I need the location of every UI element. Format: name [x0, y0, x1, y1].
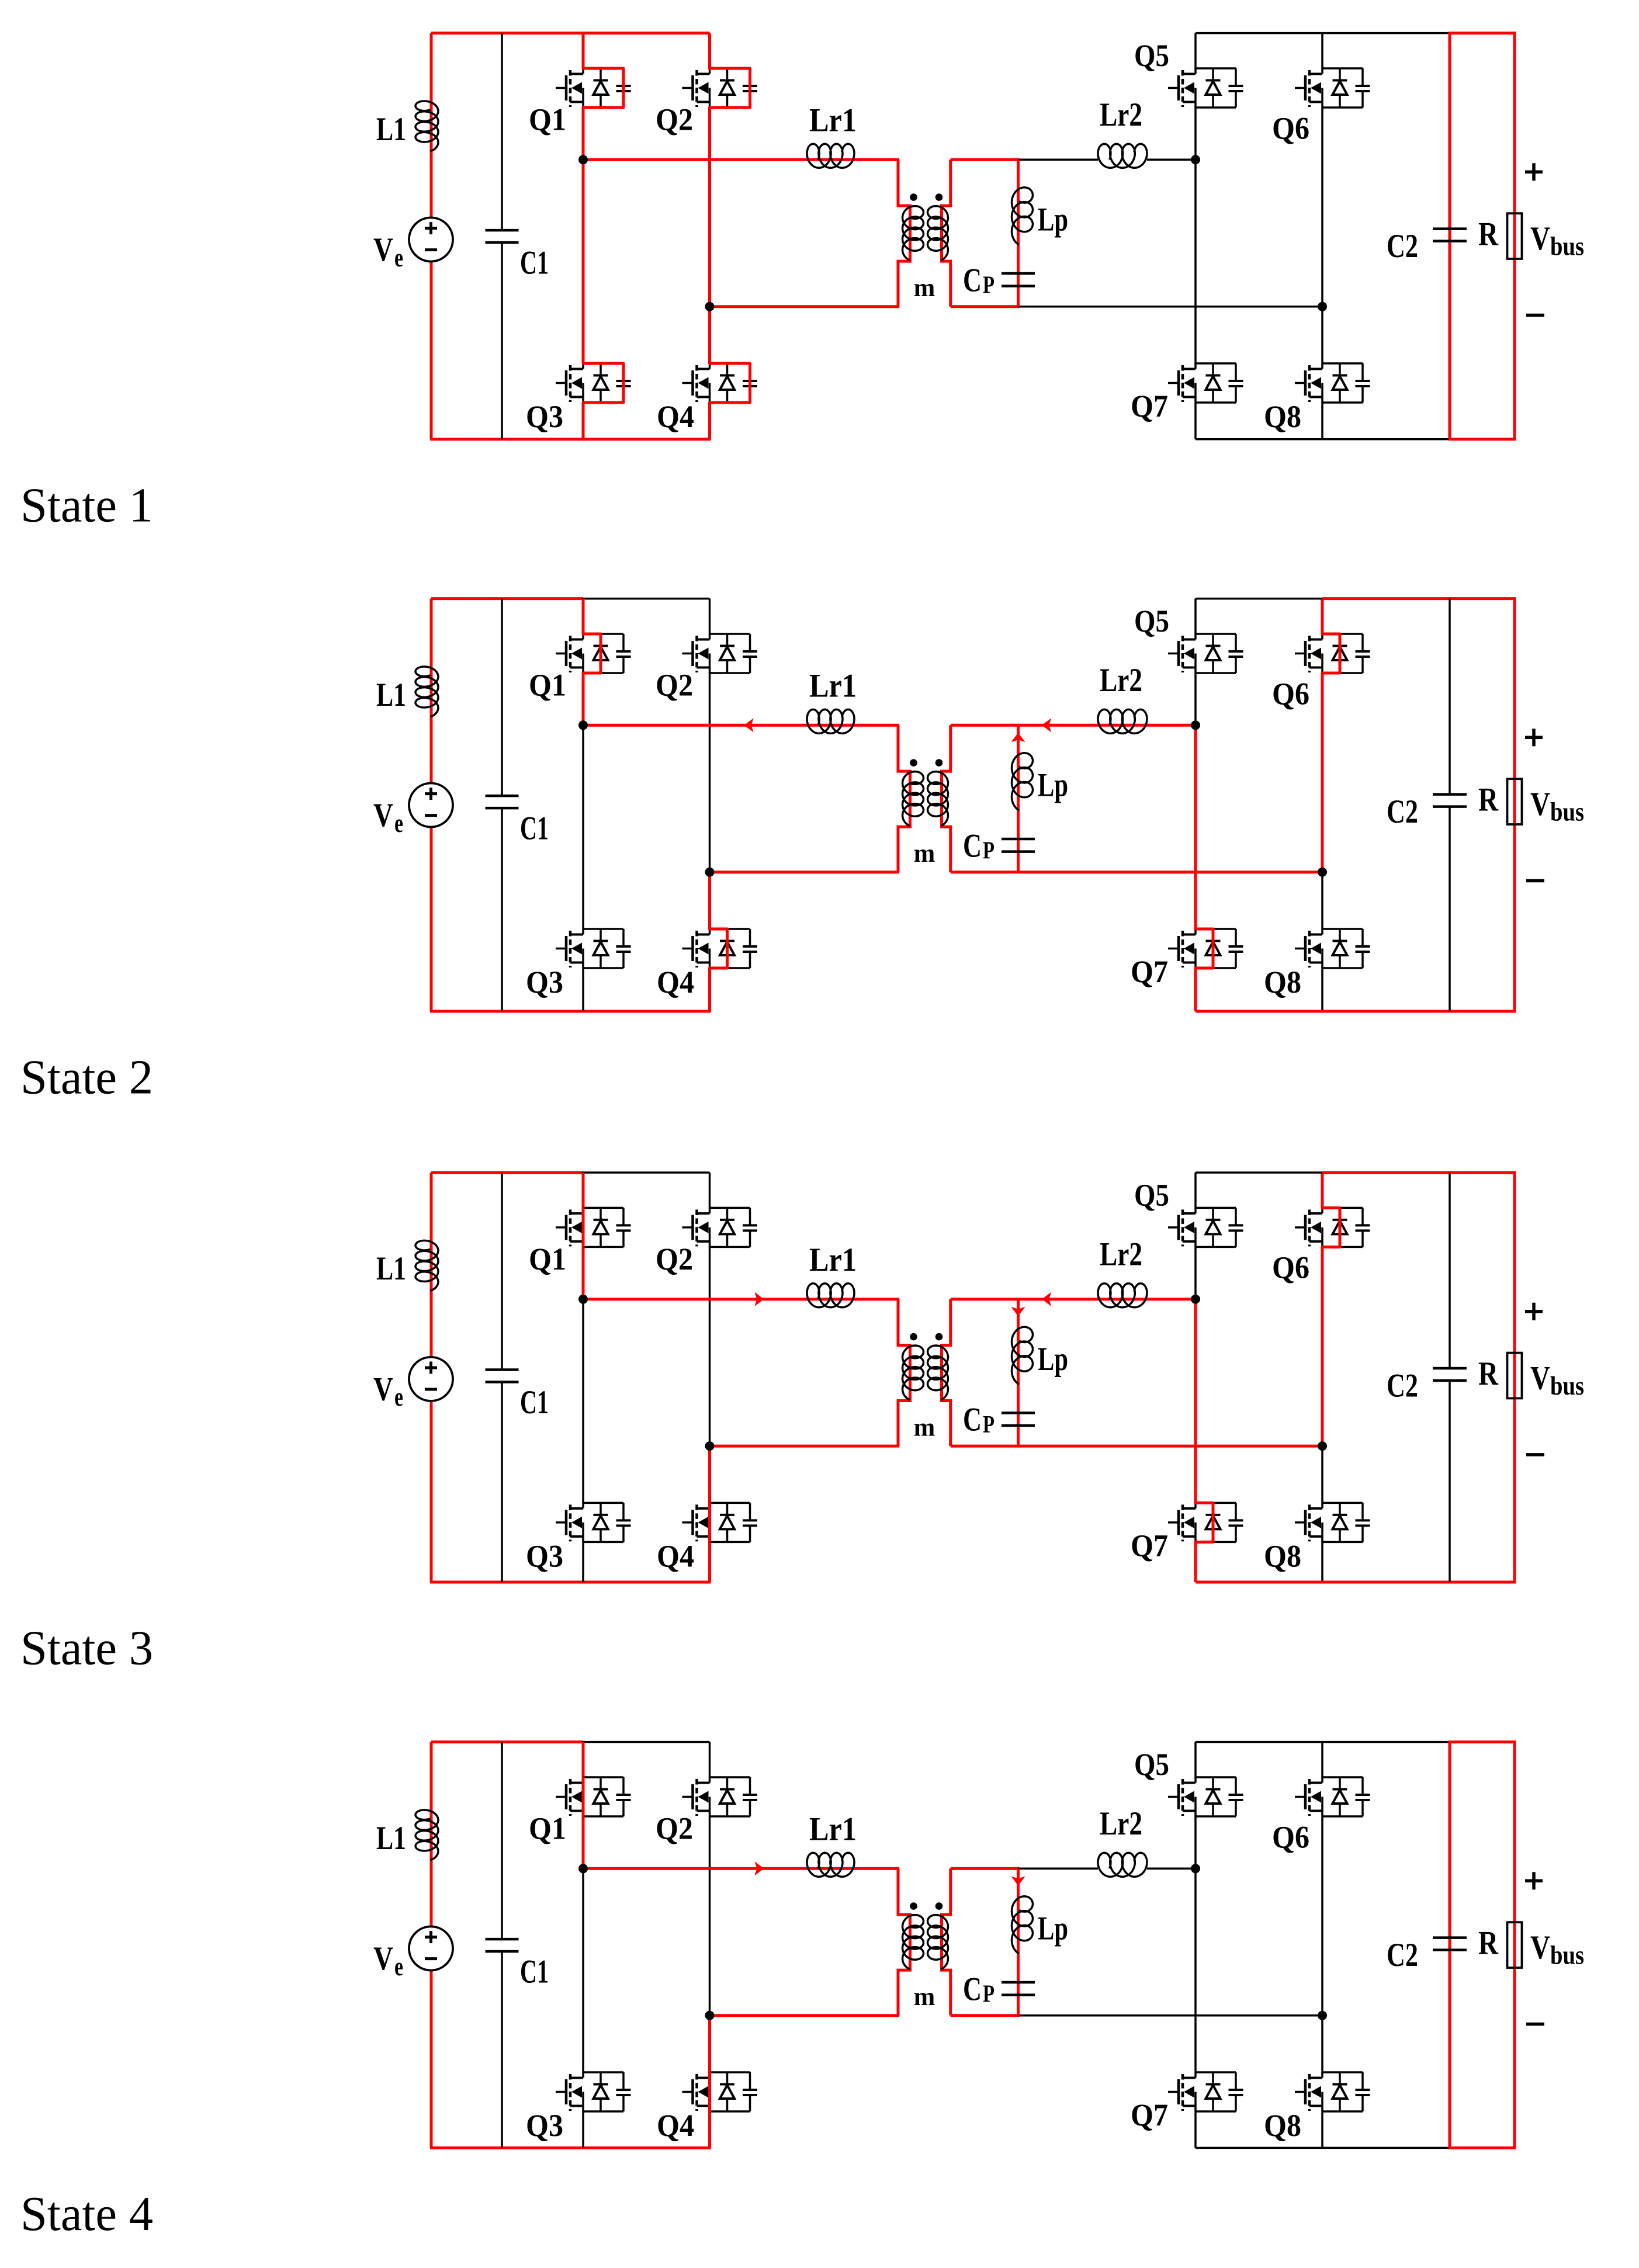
wire bottom rail Q7 to C2 (state 2): [1196, 1010, 1451, 1013]
svg-text:Lr1: Lr1: [809, 668, 857, 705]
wire Q5 leg upper (state 4): [1194, 1742, 1197, 1778]
inductor Lp (state 1): [1012, 188, 1033, 245]
wire transformer secondary lead loop (state 3): [942, 1299, 951, 1446]
label plus Vbus (state 2): [1525, 736, 1543, 740]
svg-text:e: e: [394, 242, 403, 272]
mosfet Q5 (state 4): [1196, 1776, 1236, 1778]
label plus Vbus (state 1): [1525, 171, 1543, 174]
wire bottom rail Q7 to C2 (state 3): [1196, 1581, 1451, 1584]
wire top rail C2 to R (state 4): [1449, 1740, 1516, 1743]
mosfet Q7 (state 2): [1196, 928, 1236, 930]
wire top rail left segment b (state 2): [582, 598, 710, 600]
node C Q5-Q7 midpoint (state 2): [1191, 720, 1200, 730]
svg-text:State 3: State 3: [20, 1621, 153, 1676]
wire Q2 leg lower to node B (state 3): [709, 1246, 711, 1446]
wire bottom rail left (state 1): [430, 438, 711, 441]
transformer T primary winding (state 4): [903, 1915, 924, 1969]
voltage source Ve (state 2): [409, 783, 453, 827]
svg-text:Q1: Q1: [529, 1811, 566, 1846]
wire Lp Cp branch (state 3): [1017, 1299, 1020, 1446]
transformer dot primary (state 1): [910, 193, 917, 201]
svg-text:Q1: Q1: [529, 668, 566, 703]
mosfet Q3 (state 2): [583, 928, 623, 930]
inductor Lp (state 4): [1012, 1896, 1033, 1954]
wire transformer secondary lead loop (state 1): [942, 159, 951, 306]
wire Lp branch to Q5 leg via Lr2 (state 2): [1018, 724, 1196, 727]
svg-text:Q6: Q6: [1272, 110, 1309, 145]
node B Q2-Q4 midpoint (state 1): [705, 302, 715, 311]
mosfet Q4 (state 3): [710, 1502, 750, 1504]
svg-text:m: m: [914, 1413, 935, 1442]
wire node B to transformer primary bottom (state 4): [710, 2014, 900, 2017]
wire Q8 leg upper (state 3): [1321, 1446, 1323, 1503]
svg-text:C: C: [963, 1971, 982, 2007]
wire R load branch (state 1): [1513, 33, 1516, 439]
label minus Vbus (state 2): [1526, 879, 1544, 883]
mosfet Q8 (state 1): [1322, 362, 1363, 365]
svg-text:Q6: Q6: [1272, 1819, 1309, 1854]
wire R load branch (state 2): [1513, 599, 1516, 1011]
wire C1 branch (state 3): [501, 1173, 503, 1370]
wire Q4 leg lower (state 2): [708, 967, 711, 1011]
wire Lp branch to Q5 leg via Lr2 (state 1): [1018, 159, 1099, 161]
wire secondary top to Lp branch (state 2): [951, 724, 1020, 727]
svg-text:e: e: [394, 1382, 403, 1412]
svg-text:m: m: [914, 273, 935, 302]
wire Q1 leg upper (state 2): [582, 599, 585, 634]
svg-text:Lr1: Lr1: [809, 102, 857, 139]
svg-text:Q7: Q7: [1131, 389, 1168, 424]
wire Q3 leg upper (state 1): [582, 159, 585, 364]
transformer T primary winding (state 3): [903, 1345, 924, 1400]
svg-text:Q2: Q2: [656, 1241, 693, 1277]
svg-text:Q6: Q6: [1272, 1250, 1309, 1285]
wire left edge with L1 branch (state 3): [430, 1173, 433, 1358]
wire Q6 leg lower to node D (state 4): [1321, 1816, 1323, 2016]
wire bottom rail left (state 2): [430, 1010, 711, 1013]
wire Q4 leg lower (state 3): [708, 1541, 711, 1582]
wire Q2 leg lower to node B (state 2): [709, 672, 711, 872]
transformer dot primary (state 2): [910, 759, 917, 767]
transformer dot secondary (state 3): [935, 1333, 943, 1341]
svg-text:V: V: [373, 231, 393, 268]
svg-text:Q3: Q3: [526, 1539, 563, 1574]
mosfet Q6 (state 2): [1322, 633, 1363, 635]
svg-text:R: R: [1478, 1924, 1499, 1961]
wire Q2 leg upper (state 2): [709, 599, 711, 634]
svg-text:Lr1: Lr1: [809, 1241, 857, 1278]
wire top rail C2 to R (state 3): [1449, 1171, 1516, 1174]
mosfet Q6 (state 3): [1322, 1207, 1363, 1209]
wire Q8 leg upper (state 2): [1321, 872, 1323, 930]
wire Q6 leg upper (state 4): [1321, 1742, 1323, 1778]
label minus Vbus (state 1): [1526, 314, 1544, 317]
node B Q2-Q4 midpoint (state 4): [705, 2011, 715, 2020]
wire Q7 leg upper (state 1): [1194, 159, 1197, 364]
capacitor C1 (state 1): [486, 229, 519, 232]
mosfet Q7 (state 3): [1196, 1502, 1236, 1504]
wire Cp bottom to Q6 leg node D (state 2): [1018, 871, 1323, 873]
wire Q3 leg lower (state 4): [582, 2111, 584, 2148]
wire Q2 leg lower to node B (state 1): [708, 107, 711, 307]
svg-text:C1: C1: [520, 245, 549, 282]
svg-text:Lp: Lp: [1038, 202, 1068, 238]
svg-text:C: C: [963, 262, 982, 299]
mosfet Q4 (state 4): [710, 2071, 750, 2073]
wire secondary top to Lp branch (state 3): [951, 1298, 1020, 1301]
label minus Vbus (state 3): [1526, 1453, 1544, 1456]
svg-text:bus: bus: [1550, 231, 1584, 261]
svg-text:Q7: Q7: [1131, 954, 1168, 989]
transformer T secondary winding (state 4): [928, 1915, 948, 1969]
voltage source Ve (state 3): [409, 1357, 453, 1401]
mosfet Q3 (state 4): [583, 2071, 623, 2073]
wire top rail right Q5-Q6 (state 3): [1196, 1171, 1322, 1174]
wire Q7 leg upper (state 4): [1194, 1868, 1197, 2073]
mosfet Q4 (state 2): [710, 928, 750, 930]
svg-text:Q1: Q1: [529, 102, 566, 137]
svg-text:V: V: [1530, 1360, 1550, 1396]
svg-text:L1: L1: [376, 1250, 406, 1287]
wire Q8 leg lower (state 3): [1321, 1541, 1323, 1582]
current arrow left before Lr2 (state 2): [1042, 718, 1051, 732]
mosfet Q6 (state 4): [1322, 1776, 1363, 1778]
wire Q5 leg lower to node C (state 2): [1194, 672, 1197, 725]
wire Q8 leg upper (state 1): [1321, 307, 1323, 364]
wire secondary bottom to Cp bottom (state 1): [951, 305, 1020, 308]
wire Q7 leg upper (state 3): [1194, 1299, 1197, 1504]
mosfet Q8 (state 2): [1322, 928, 1363, 930]
svg-text:C1: C1: [520, 1954, 549, 1990]
wire C2 branch (state 1): [1449, 33, 1451, 439]
wire top rail left segment a (state 1): [431, 32, 583, 34]
inductor Lp (state 2): [1012, 753, 1033, 810]
svg-text:Q4: Q4: [657, 965, 694, 1000]
mosfet Q7 (state 1): [1196, 362, 1236, 365]
node D Q6-Q8 midpoint (state 4): [1318, 2011, 1327, 2020]
current arrow left before Lr2 (state 3): [1042, 1292, 1051, 1306]
capacitor Cp (state 4): [1002, 1981, 1035, 1984]
wire top rail C2 to R (state 1): [1449, 32, 1516, 34]
svg-text:bus: bus: [1550, 796, 1584, 826]
wire Cp bottom to Q6 leg node D (state 3): [1018, 1445, 1323, 1448]
svg-text:e: e: [394, 808, 403, 838]
transformer dot primary (state 3): [910, 1333, 917, 1341]
mosfet Q1 (state 1): [583, 67, 623, 70]
svg-text:Lr2: Lr2: [1100, 662, 1142, 699]
mosfet Q1 (state 3): [583, 1207, 623, 1209]
wire Q7 leg lower (state 2): [1194, 967, 1197, 1011]
svg-text:C2: C2: [1387, 1937, 1418, 1974]
node C Q5-Q7 midpoint (state 4): [1191, 1864, 1200, 1873]
wire Q3 leg upper (state 4): [582, 1868, 584, 2073]
wire C2 branch (state 2): [1449, 599, 1451, 795]
mosfet Q8 (state 4): [1322, 2071, 1363, 2073]
wire bottom rail Q7 to C2 (state 1): [1196, 438, 1451, 441]
svg-text:Lr2: Lr2: [1100, 1805, 1142, 1842]
capacitor Cp (state 2): [1002, 838, 1035, 841]
voltage source Ve (state 4): [409, 1927, 453, 1971]
svg-text:C2: C2: [1387, 228, 1418, 265]
capacitor C1 (state 3): [486, 1368, 519, 1371]
svg-text:Q7: Q7: [1131, 1528, 1168, 1563]
wire top rail left segment b (state 1): [582, 32, 710, 34]
wire top rail Q6 to C2 (state 4): [1322, 1741, 1451, 1743]
wire Q4 leg upper (state 1): [708, 307, 711, 364]
mosfet Q2 (state 3): [710, 1207, 750, 1209]
wire secondary top to Lp branch (state 4): [951, 1867, 1020, 1870]
wire Q8 leg upper (state 4): [1321, 2016, 1323, 2073]
svg-text:Q5: Q5: [1134, 38, 1169, 73]
current arrow down on Lp branch (state 4): [1011, 1876, 1025, 1885]
wire transformer secondary lead loop (state 4): [942, 1868, 951, 2015]
wire Q2 leg upper (state 4): [709, 1742, 711, 1778]
wire transformer primary lead loop (state 2): [898, 725, 910, 872]
svg-text:State 2: State 2: [20, 1050, 153, 1105]
transformer T primary winding (state 1): [903, 206, 924, 261]
node D Q6-Q8 midpoint (state 2): [1318, 868, 1327, 877]
wire Q7 leg lower (state 1): [1194, 402, 1197, 439]
node C Q5-Q7 midpoint (state 3): [1191, 1295, 1200, 1304]
wire Q7 leg lower (state 4): [1194, 2111, 1197, 2148]
current arrow right on Lr1 wire (state 3): [754, 1292, 764, 1306]
svg-text:V: V: [1530, 220, 1550, 257]
svg-text:Lp: Lp: [1038, 1341, 1068, 1378]
svg-text:V: V: [1530, 786, 1550, 823]
wire C1 branch (state 4): [501, 1742, 503, 1940]
wire Q1 leg upper (state 1): [582, 33, 585, 69]
transformer dot secondary (state 2): [935, 759, 943, 767]
svg-text:Q8: Q8: [1264, 399, 1301, 434]
transformer dot secondary (state 4): [935, 1902, 943, 1910]
svg-text:Q3: Q3: [526, 965, 563, 1000]
node B Q2-Q4 midpoint (state 3): [705, 1441, 715, 1451]
transformer dot primary (state 4): [910, 1902, 917, 1910]
svg-text:V: V: [373, 1371, 393, 1407]
capacitor C1 (state 4): [486, 1938, 519, 1941]
wire Q5 leg lower to node C (state 3): [1194, 1246, 1197, 1299]
wire Q3 leg lower (state 3): [582, 1541, 584, 1582]
wire Q4 leg upper (state 4): [708, 2016, 711, 2073]
wire Lp branch to Q5 leg via Lr2 (state 4): [1018, 1868, 1099, 1870]
wire Q5 leg upper (state 1): [1194, 33, 1197, 69]
mosfet Q2 (state 1): [710, 67, 750, 70]
svg-text:Lr2: Lr2: [1100, 1236, 1142, 1272]
wire node B to transformer primary bottom (state 1): [710, 305, 900, 308]
wire Q4 leg lower (state 4): [708, 2111, 711, 2148]
label minus Vbus (state 4): [1526, 2023, 1544, 2026]
wire top rail left segment a (state 3): [431, 1171, 583, 1174]
mosfet Q2 (state 4): [710, 1776, 750, 1778]
inductor Lr1 (state 3): [807, 1284, 854, 1308]
wire Q6 leg lower to node D (state 3): [1321, 1246, 1324, 1446]
wire secondary bottom to Cp bottom (state 4): [951, 2014, 1020, 2017]
wire C2 branch (state 3): [1449, 1173, 1451, 1368]
inductor Lr1 (state 4): [807, 1853, 854, 1877]
mosfet Q7 (state 4): [1196, 2071, 1236, 2073]
svg-text:C1: C1: [520, 810, 549, 847]
svg-text:P: P: [983, 1981, 995, 2008]
inductor Lr1 (state 2): [807, 709, 854, 733]
voltage source Ve (state 1): [409, 218, 453, 262]
resistor R body (state 1): [1508, 213, 1522, 259]
mosfet Q2 (state 2): [710, 633, 750, 635]
wire bottom rail C2 to R (state 1): [1449, 438, 1516, 441]
wire C1 branch (state 2): [501, 599, 503, 796]
wire Q1 leg upper (state 3): [582, 1173, 585, 1208]
wire Q3 leg upper (state 3): [582, 1299, 584, 1504]
wire top rail C2 to R (state 2): [1449, 597, 1516, 600]
wire Q5 leg lower to node C (state 1): [1194, 107, 1197, 159]
wire Q1 leg upper (state 4): [582, 1742, 585, 1778]
svg-text:P: P: [983, 838, 995, 865]
wire secondary bottom to Cp bottom (state 3): [951, 1445, 1020, 1448]
wire top rail Q6 to C2 (state 2): [1322, 597, 1451, 600]
svg-text:State 1: State 1: [20, 478, 153, 532]
wire Q2 leg upper (state 1): [708, 33, 711, 69]
wire Q4 leg lower (state 1): [708, 402, 711, 439]
svg-text:P: P: [983, 1412, 995, 1438]
svg-text:L1: L1: [376, 111, 406, 148]
inductor L1 (state 4): [415, 1810, 438, 1860]
svg-text:Q4: Q4: [657, 2108, 694, 2143]
mosfet Q5 (state 1): [1196, 67, 1236, 70]
wire left edge with L1 branch (state 1): [430, 33, 433, 219]
mosfet Q3 (state 3): [583, 1502, 623, 1504]
svg-text:V: V: [373, 1940, 393, 1977]
svg-text:m: m: [914, 839, 935, 868]
transformer T secondary winding (state 1): [928, 206, 948, 261]
svg-text:Q3: Q3: [526, 399, 563, 434]
wire Q3 leg upper (state 2): [582, 725, 584, 930]
svg-text:Q4: Q4: [657, 399, 694, 434]
wire transformer secondary lead loop (state 2): [942, 725, 951, 872]
wire secondary bottom to Cp bottom (state 2): [951, 871, 1020, 873]
mosfet Q4 (state 1): [710, 362, 750, 365]
inductor Lr2 (state 2): [1098, 709, 1147, 733]
svg-text:V: V: [1530, 1929, 1550, 1966]
wire Q2 leg lower to node B (state 4): [709, 1816, 711, 2016]
capacitor C2 (state 3): [1433, 1367, 1467, 1370]
svg-text:Lr2: Lr2: [1100, 96, 1142, 133]
capacitor C2 (state 2): [1433, 793, 1467, 796]
svg-text:State 4: State 4: [20, 2187, 153, 2241]
svg-text:Q3: Q3: [526, 2108, 563, 2143]
mosfet Q1 (state 4): [583, 1776, 623, 1778]
wire transformer primary lead loop (state 3): [898, 1299, 910, 1446]
svg-text:Q8: Q8: [1264, 2108, 1301, 2143]
transformer T secondary winding (state 2): [928, 772, 948, 826]
inductor Lr2 (state 1): [1098, 144, 1147, 168]
svg-text:C: C: [963, 1402, 982, 1438]
svg-text:Q8: Q8: [1264, 1539, 1301, 1574]
mosfet Q1 (state 2): [583, 633, 623, 635]
wire node B to transformer primary bottom (state 2): [710, 871, 900, 873]
node D Q6-Q8 midpoint (state 1): [1318, 302, 1327, 311]
node B Q2-Q4 midpoint (state 2): [705, 868, 715, 877]
inductor L1 (state 2): [415, 667, 438, 717]
wire top rail right Q5-Q6 (state 1): [1196, 32, 1322, 34]
current arrow left on Lr1 wire (state 2): [744, 718, 754, 732]
wire left edge with L1 branch (state 2): [430, 599, 433, 785]
resistor R body (state 2): [1508, 779, 1522, 824]
wire node A to transformer primary top via Lr1 (state 2): [583, 724, 899, 727]
wire top rail left segment b (state 4): [582, 1741, 710, 1743]
wire R load branch (state 3): [1513, 1173, 1516, 1582]
svg-text:V: V: [373, 797, 393, 834]
svg-text:Q5: Q5: [1134, 1747, 1169, 1782]
wire Q4 leg upper (state 3): [708, 1446, 711, 1503]
inductor L1 (state 3): [415, 1240, 438, 1291]
capacitor C2 (state 1): [1433, 227, 1467, 230]
wire C2 branch (state 4): [1449, 1742, 1451, 2148]
inductor Lr2 (state 3): [1098, 1284, 1147, 1308]
wire C1 branch (state 1): [501, 33, 503, 231]
wire Cp bottom to Q6 leg node D (state 1): [1018, 306, 1323, 308]
mosfet Q6 (state 1): [1322, 67, 1363, 70]
wire R load branch (state 4): [1513, 1742, 1516, 2148]
wire Q8 leg lower (state 2): [1321, 967, 1323, 1011]
svg-text:R: R: [1478, 1355, 1499, 1392]
wire Q4 leg upper (state 2): [708, 872, 711, 930]
svg-text:P: P: [983, 272, 995, 299]
svg-text:C2: C2: [1387, 1368, 1418, 1405]
wire node A to transformer primary top via Lr1 (state 1): [583, 158, 899, 161]
svg-text:Q4: Q4: [657, 1539, 694, 1574]
svg-text:Q5: Q5: [1134, 604, 1169, 639]
wire Q5 leg upper (state 2): [1194, 599, 1197, 634]
wire Q7 leg lower (state 3): [1194, 1541, 1197, 1582]
wire node A to transformer primary top via Lr1 (state 4): [583, 1867, 899, 1870]
wire Q6 leg lower to node D (state 2): [1321, 672, 1324, 872]
svg-text:m: m: [914, 1982, 935, 2011]
wire Q6 leg upper (state 1): [1321, 33, 1323, 69]
label plus Vbus (state 3): [1525, 1310, 1543, 1313]
current arrow up on Lp branch (state 2): [1011, 733, 1025, 742]
svg-text:Q7: Q7: [1131, 2097, 1168, 2132]
wire Q6 leg upper (state 2): [1321, 599, 1324, 634]
wire Q1 leg lower to node A (state 3): [582, 1246, 585, 1299]
node A Q1-Q3 midpoint (state 4): [578, 1864, 588, 1873]
wire top rail left segment a (state 2): [431, 597, 583, 600]
mosfet Q3 (state 1): [583, 362, 623, 365]
wire Cp bottom to Q6 leg node D (state 4): [1018, 2014, 1323, 2017]
svg-text:bus: bus: [1550, 1940, 1584, 1969]
svg-text:Q5: Q5: [1134, 1177, 1169, 1212]
inductor Lr1 (state 1): [807, 144, 854, 168]
node A Q1-Q3 midpoint (state 3): [578, 1295, 588, 1304]
svg-text:Q2: Q2: [656, 102, 693, 137]
svg-text:Lr1: Lr1: [809, 1811, 857, 1848]
capacitor Cp (state 3): [1002, 1412, 1035, 1414]
wire Q6 leg upper (state 3): [1321, 1173, 1324, 1208]
svg-text:C1: C1: [520, 1384, 549, 1421]
inductor Lp (state 3): [1012, 1327, 1033, 1384]
svg-text:e: e: [394, 1951, 403, 1981]
wire Q3 leg lower (state 1): [582, 402, 585, 439]
wire Q8 leg lower (state 1): [1321, 402, 1323, 439]
svg-text:Q6: Q6: [1272, 676, 1309, 711]
svg-text:C2: C2: [1387, 793, 1418, 830]
svg-text:R: R: [1478, 781, 1499, 818]
transformer T primary winding (state 2): [903, 772, 924, 826]
svg-text:bus: bus: [1550, 1371, 1584, 1400]
mosfet Q5 (state 2): [1196, 633, 1236, 635]
node C Q5-Q7 midpoint (state 1): [1191, 155, 1200, 164]
wire bottom rail left (state 3): [430, 1581, 711, 1584]
wire Q3 leg lower (state 2): [582, 967, 584, 1011]
wire Lp Cp branch (state 2): [1017, 725, 1020, 872]
